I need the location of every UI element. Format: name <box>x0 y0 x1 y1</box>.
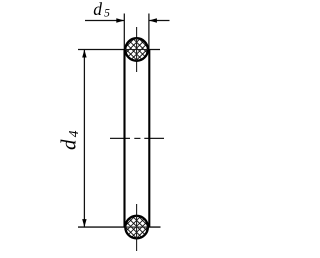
silhouette line right (O-ring side profile) <box>148 50 150 228</box>
arrow: d4 bottom (points down) <box>82 219 86 227</box>
centerline: middle horizontal dash-dot <box>110 137 164 139</box>
dimension line d5 left tail <box>85 20 124 22</box>
centerline: top circle vertical (over hatch) <box>136 38 138 61</box>
centerline: top circle horizontal (over hatch) <box>125 49 148 51</box>
wire: top extension/centerline horizontal y=49.5 <box>78 49 160 51</box>
centerline: bottom circle horizontal (over hatch) <box>125 226 148 228</box>
silhouette line left (O-ring side profile) <box>123 50 125 228</box>
extension line: d5 left <box>123 14 125 50</box>
extension line: d5 right <box>148 14 150 50</box>
arrow: d5 right (points left) <box>149 18 157 22</box>
dimension line d4 vertical <box>83 50 85 228</box>
arrow: d5 left (points right) <box>116 18 124 22</box>
wire: bottom extension/centerline horizontal y=227.1 <box>78 226 161 228</box>
centerline: top circle vertical <box>136 27 138 72</box>
centerline: bottom circle vertical (over hatch) <box>136 216 138 239</box>
O-ring top cross-section circle with crosshatch <box>125 38 148 61</box>
O-ring bottom cross-section circle with crosshatch <box>125 216 148 239</box>
arrow: d4 top (points up) <box>82 50 86 58</box>
dimension line d5 right tail <box>149 20 170 22</box>
centerline: bottom circle vertical <box>136 204 138 251</box>
